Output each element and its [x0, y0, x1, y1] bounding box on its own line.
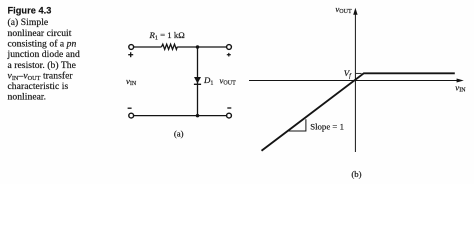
svg-text:Vf: Vf	[344, 68, 352, 80]
svg-text:(a): (a)	[174, 128, 184, 138]
svg-text:(a) Simple: (a) Simple	[8, 17, 49, 28]
svg-text:Slope = 1: Slope = 1	[310, 121, 344, 131]
svg-text:(b): (b)	[351, 169, 361, 179]
svg-text:junction diode and: junction diode and	[7, 49, 80, 60]
svg-text:vIN: vIN	[455, 82, 466, 93]
svg-text:vOUT: vOUT	[220, 76, 237, 87]
svg-text:consisting of a pn: consisting of a pn	[8, 39, 77, 50]
svg-text:R1 = 1 kΩ: R1 = 1 kΩ	[149, 30, 186, 42]
svg-text:nonlinear.: nonlinear.	[8, 92, 47, 103]
svg-text:characteristic is: characteristic is	[8, 81, 69, 92]
svg-text:vOUT: vOUT	[335, 4, 352, 15]
svg-text:vIN: vIN	[126, 76, 137, 87]
svg-text:a resistor. (b) The: a resistor. (b) The	[8, 60, 76, 71]
svg-text:D1: D1	[203, 75, 213, 87]
svg-text:Figure 4.3: Figure 4.3	[8, 6, 52, 16]
svg-text:nonlinear circuit: nonlinear circuit	[8, 28, 72, 39]
